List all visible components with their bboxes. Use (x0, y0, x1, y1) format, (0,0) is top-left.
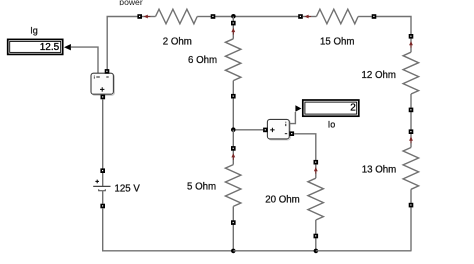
resistor 12 Ohm (vertical) (362, 34, 419, 130)
current arrow (409, 137, 413, 141)
port (372, 14, 377, 19)
plus mark (270, 128, 274, 132)
wire: top rail right corner down to 12 Ohm (374, 17, 411, 37)
short plate (99, 189, 106, 191)
current arrow (231, 153, 235, 157)
node: bottom rail junction at 20 Ohm (314, 249, 319, 254)
port - (290, 131, 295, 136)
wire: sensor minus to 20 Ohm branch (294, 134, 316, 161)
port bottom (101, 95, 106, 100)
wire: bottom rail right segment (316, 250, 412, 252)
resistor 6 Ohm (vertical) (188, 17, 241, 130)
port bottom (100, 204, 105, 209)
svg-text:13 Ohm: 13 Ohm (362, 165, 396, 176)
plus mark (100, 87, 104, 91)
current sensor (Io measurement) block U2 (263, 119, 294, 139)
svg-text:6 Ohm: 6 Ohm (188, 55, 217, 66)
svg-text:power: power (119, 0, 143, 7)
port + (263, 128, 268, 133)
node: junction 6 Ohm / 5 Ohm / sensor Io (231, 127, 236, 132)
minus mark (106, 76, 108, 78)
svg-text:15 Ohm: 15 Ohm (320, 37, 354, 48)
resistor 13 Ohm (vertical) (362, 129, 419, 250)
current sensor (Ig measurement) block U1 (91, 69, 114, 99)
display block Ig (8, 26, 63, 55)
arrow into display Io (295, 105, 301, 111)
i mark (285, 122, 287, 126)
wire: top rail between 2 Ohm and 15 Ohm (213, 16, 301, 18)
port (314, 234, 319, 239)
svg-text:2 Ohm: 2 Ohm (163, 37, 192, 48)
wire: battery bottom to bottom-left corner and rail (103, 208, 234, 251)
current arrow (409, 41, 413, 45)
svg-text:125 V: 125 V (115, 184, 141, 195)
current arrow (144, 15, 148, 19)
node: bottom rail junction at 5 Ohm (231, 249, 236, 254)
svg-text:12.5: 12.5 (40, 42, 60, 53)
port (231, 21, 236, 26)
port (137, 14, 142, 19)
wire: sensor output riser to display Io (289, 112, 295, 124)
wire: bottom rail middle segment (233, 250, 315, 252)
svg-text:12 Ohm: 12 Ohm (362, 70, 396, 81)
port (231, 146, 236, 151)
svg-text:20 Ohm: 20 Ohm (265, 195, 299, 206)
current arrow (231, 28, 235, 32)
port (231, 94, 236, 99)
svg-text:Io: Io (328, 120, 336, 130)
DC voltage source 125 V (93, 168, 140, 208)
port (409, 34, 414, 39)
minus mark (285, 133, 287, 135)
long plate (93, 185, 110, 187)
resistor 20 Ohm (vertical) (265, 160, 323, 251)
port (231, 220, 236, 225)
port (409, 108, 414, 113)
port (409, 203, 414, 208)
svg-text:2: 2 (350, 103, 356, 114)
wire: sensor Ig output to display (71, 47, 98, 73)
wire: sensor bottom to battery top (102, 99, 104, 168)
port (409, 129, 414, 134)
port (314, 160, 319, 165)
port (298, 14, 303, 19)
resistor 2 Ohm (137, 9, 215, 47)
arrow into display Ig (64, 44, 71, 50)
port (211, 14, 216, 19)
i mark (93, 76, 95, 79)
resistor 5 Ohm (vertical) (187, 130, 241, 251)
wire: junction to sensor Io plus port (235, 129, 263, 131)
plus sign (95, 180, 99, 184)
wire: top-left corner to 2 Ohm (107, 17, 140, 72)
display block Io (303, 100, 359, 130)
node: junction top rail / 6 Ohm branch (231, 14, 236, 19)
port top (105, 69, 110, 74)
svg-text:5 Ohm: 5 Ohm (187, 182, 216, 193)
resistor 15 Ohm (298, 9, 376, 47)
port top (100, 168, 105, 173)
current arrow (314, 167, 318, 171)
current arrow (304, 15, 308, 19)
svg-text:Ig: Ig (30, 26, 38, 36)
